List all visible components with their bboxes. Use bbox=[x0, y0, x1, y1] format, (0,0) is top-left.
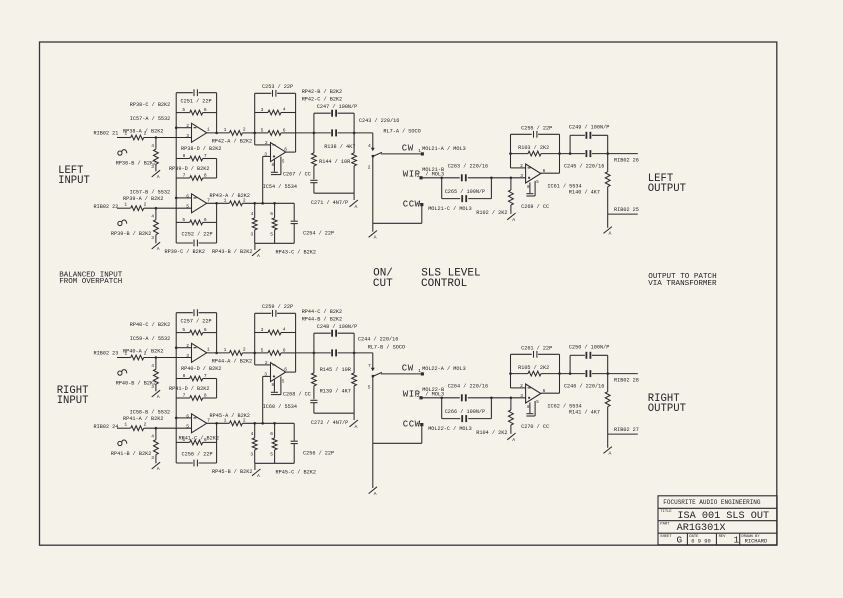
capacitor C254 (to gnd) bbox=[291, 203, 335, 243]
svg-text:5: 5 bbox=[270, 451, 273, 457]
svg-text:FOCUSRITE AUDIO ENGINEERING: FOCUSRITE AUDIO ENGINEERING bbox=[663, 499, 761, 506]
wire bbox=[144, 427, 192, 429]
border frame bbox=[40, 42, 777, 545]
svg-text:C245 / 220/16: C245 / 220/16 bbox=[564, 164, 604, 170]
connector label RIB02 22 bbox=[94, 204, 119, 210]
capacitor C248 (parallel 100N) bbox=[314, 324, 357, 353]
ground A (output) bbox=[604, 447, 612, 457]
ground A (bottom rail) bbox=[252, 463, 260, 479]
resistor RP38-A (series input, upper) bbox=[123, 128, 163, 140]
resistor RP38-D (coupling) bbox=[176, 146, 221, 161]
wire bbox=[155, 455, 157, 464]
svg-text:C267 / CC: C267 / CC bbox=[283, 171, 311, 177]
svg-text:C258 / 22P: C258 / 22P bbox=[182, 451, 213, 457]
label RP43-C bbox=[276, 250, 316, 256]
label LEFT INPUT bbox=[58, 165, 90, 187]
svg-text:5: 5 bbox=[270, 231, 273, 237]
svg-text:2: 2 bbox=[144, 201, 147, 207]
wire pin2 bbox=[255, 144, 271, 146]
svg-text:RP38-D / B2K2: RP38-D / B2K2 bbox=[181, 146, 221, 152]
wire bbox=[155, 235, 157, 244]
resistor RP44-C (2nd stage feedback 5-6) bbox=[255, 347, 296, 355]
svg-text:VIA TRANSFORMER: VIA TRANSFORMER bbox=[648, 280, 717, 288]
svg-text:1: 1 bbox=[124, 421, 127, 427]
resistor RP42-C (2nd stage feedback 5-6) bbox=[255, 127, 296, 135]
wire bbox=[155, 164, 157, 171]
svg-text:C252 / 22P: C252 / 22P bbox=[182, 231, 213, 237]
svg-text:R138 / 4K7: R138 / 4K7 bbox=[324, 144, 355, 150]
svg-text:SHEET: SHEET bbox=[660, 535, 672, 539]
svg-text:C247 / 100N/P: C247 / 100N/P bbox=[317, 104, 357, 110]
svg-text:RICHARD: RICHARD bbox=[745, 539, 768, 545]
svg-text:RP40-B / B2K2: RP40-B / B2K2 bbox=[116, 381, 156, 387]
relay contact RL7-B bbox=[368, 344, 405, 390]
svg-text:7: 7 bbox=[204, 373, 207, 379]
svg-text:3: 3 bbox=[151, 455, 154, 461]
svg-text:3: 3 bbox=[186, 133, 189, 139]
svg-text:RP43-B / B2K2: RP43-B / B2K2 bbox=[212, 249, 252, 255]
capacitor C259 (2nd stage feedback) bbox=[255, 304, 296, 317]
relay contact RL7-A bbox=[368, 129, 421, 171]
wire pin3 down to lower bus bbox=[263, 376, 271, 423]
resistor RP44-B (2nd stage feedback 3-4) bbox=[255, 326, 296, 335]
capacitor C253 (2nd stage feedback) bbox=[255, 84, 296, 97]
svg-text:RP39-C / B2K2: RP39-C / B2K2 bbox=[165, 249, 205, 255]
wire CCW leg bbox=[373, 205, 422, 224]
svg-text:IC58-B / 5532: IC58-B / 5532 bbox=[130, 409, 170, 415]
wire input RIB02 22 bbox=[117, 207, 131, 209]
svg-text:MOL21-A / MOL3: MOL21-A / MOL3 bbox=[422, 146, 466, 152]
svg-text:IC62 / 5534: IC62 / 5534 bbox=[547, 404, 581, 410]
svg-text:RIB02 28: RIB02 28 bbox=[614, 378, 639, 384]
wire 2nd stage left vertical bbox=[254, 93, 256, 145]
svg-text:C270 / CC: C270 / CC bbox=[521, 424, 549, 430]
svg-text:IC54 / 5534: IC54 / 5534 bbox=[263, 184, 297, 190]
wire down bbox=[607, 214, 609, 228]
svg-text:4: 4 bbox=[151, 143, 154, 149]
label RP42-C bbox=[302, 97, 342, 103]
wire bbox=[155, 384, 157, 391]
resistor R139 (network left) bbox=[312, 353, 351, 399]
resistor RP39-D (coupling) bbox=[169, 166, 217, 181]
svg-text:4: 4 bbox=[151, 214, 154, 220]
svg-text:CUT: CUT bbox=[373, 278, 393, 290]
node input junction bbox=[155, 138, 157, 150]
svg-text:4: 4 bbox=[251, 211, 254, 217]
label RP44-B bbox=[302, 317, 342, 323]
svg-text:6: 6 bbox=[270, 211, 273, 217]
label RP43-B bbox=[212, 249, 252, 255]
svg-text:RP40-D / B2K2: RP40-D / B2K2 bbox=[181, 366, 221, 372]
svg-text:6: 6 bbox=[204, 107, 207, 113]
wire op-amp output bbox=[207, 127, 230, 133]
svg-text:1: 1 bbox=[418, 369, 421, 374]
svg-text:A: A bbox=[157, 466, 160, 472]
svg-text:RIB02 27: RIB02 27 bbox=[614, 427, 639, 433]
svg-text:A: A bbox=[157, 394, 160, 400]
svg-text:REV: REV bbox=[719, 535, 727, 539]
AC source symbol (upper) bbox=[118, 150, 127, 156]
wire relay ground leg bbox=[372, 156, 374, 231]
op-amp IC59-A (upper input) bbox=[130, 336, 210, 362]
op-amp IC57-B (lower input) bbox=[130, 189, 211, 213]
svg-text:CONTROL: CONTROL bbox=[421, 278, 467, 290]
wire pin2 feedback bbox=[511, 354, 526, 388]
svg-text:A: A bbox=[374, 491, 377, 497]
svg-text:2: 2 bbox=[144, 351, 147, 357]
svg-text:C257 / 22P: C257 / 22P bbox=[181, 319, 212, 325]
resistor RP45-C (to gnd) bbox=[270, 423, 277, 463]
wire op-amp output bbox=[207, 347, 230, 353]
svg-text:6 9 90: 6 9 90 bbox=[691, 538, 710, 544]
wire down bbox=[607, 434, 609, 448]
svg-text:RP44-A / B2K2: RP44-A / B2K2 bbox=[212, 359, 252, 365]
svg-text:A: A bbox=[157, 174, 160, 180]
label RP45-B bbox=[212, 469, 252, 475]
svg-text:7: 7 bbox=[183, 393, 186, 399]
svg-text:RP41-C / B2K2: RP41-C / B2K2 bbox=[179, 436, 219, 442]
svg-text:RIB02 22: RIB02 22 bbox=[94, 204, 119, 210]
svg-text:6: 6 bbox=[204, 327, 207, 333]
wire pin3 down to lower bus bbox=[263, 156, 271, 203]
svg-text:1: 1 bbox=[418, 149, 421, 154]
svg-text:C272 / 4N7/P: C272 / 4N7/P bbox=[311, 420, 348, 426]
capacitor C252 (feedback, lower) bbox=[176, 231, 216, 246]
ground A (lower input) bbox=[152, 242, 160, 252]
connector label RIB02 23 bbox=[94, 351, 119, 357]
svg-text:INPUT: INPUT bbox=[57, 395, 89, 407]
svg-text:5: 5 bbox=[182, 217, 185, 223]
wire pin2 bbox=[255, 364, 271, 366]
wire input RIB02 21 bbox=[117, 137, 131, 139]
svg-text:ISA 001 SLS OUT: ISA 001 SLS OUT bbox=[677, 511, 769, 522]
wire bbox=[242, 352, 254, 354]
svg-text:C264 / 220/16: C264 / 220/16 bbox=[448, 383, 488, 389]
capacitor C266 (wiper parallel) bbox=[442, 398, 492, 422]
wire coupling right vertical bbox=[216, 159, 218, 179]
svg-text:RP39-B / B2K2: RP39-B / B2K2 bbox=[111, 231, 151, 237]
svg-text:RP45-B / B2K2: RP45-B / B2K2 bbox=[212, 469, 252, 475]
svg-text:R103 / 2K2: R103 / 2K2 bbox=[518, 145, 549, 151]
resistor RP39-A (series input, lower) bbox=[123, 196, 163, 211]
resistor RP41-C (feedback, lower) bbox=[176, 437, 216, 445]
svg-text:MOL21-C / MOL3: MOL21-C / MOL3 bbox=[428, 206, 472, 212]
svg-text:3: 3 bbox=[520, 393, 523, 399]
svg-text:R144 / 10R: R144 / 10R bbox=[319, 159, 350, 165]
resistor R141 (output load) bbox=[569, 374, 610, 435]
wire feedback box B right vertical bbox=[216, 423, 218, 463]
svg-text:C244 / 220/16: C244 / 220/16 bbox=[358, 336, 398, 342]
svg-text:2: 2 bbox=[144, 131, 147, 137]
svg-text:RP39-A / B2K2: RP39-A / B2K2 bbox=[123, 196, 163, 202]
svg-text:8: 8 bbox=[204, 393, 207, 399]
capacitor C251 (feedback, upper) bbox=[176, 89, 216, 104]
svg-text:RIB02 23: RIB02 23 bbox=[94, 351, 119, 357]
svg-text:RP41-A / B2K2: RP41-A / B2K2 bbox=[123, 416, 163, 422]
svg-text:6: 6 bbox=[186, 194, 189, 200]
svg-text:5: 5 bbox=[186, 424, 189, 430]
label BALANCED INPUT FROM OVERPATCH bbox=[59, 271, 123, 285]
svg-text:RP40-C / B2K2: RP40-C / B2K2 bbox=[130, 322, 170, 328]
capacitor C272 (network) bbox=[310, 400, 348, 426]
svg-text:RP39-D / B2K2: RP39-D / B2K2 bbox=[169, 166, 209, 172]
wire 2nd stage output bbox=[286, 313, 296, 372]
svg-text:IC61 / 5534: IC61 / 5534 bbox=[547, 184, 581, 190]
ground A (upper input) bbox=[152, 390, 160, 400]
capacitor C247 (parallel 100N) bbox=[314, 104, 357, 133]
svg-text:2: 2 bbox=[144, 421, 147, 427]
svg-text:6: 6 bbox=[284, 146, 287, 152]
wire 2nd stage left vertical bbox=[254, 313, 256, 365]
resistor R145 (network right) bbox=[320, 353, 357, 413]
resistor R138 (network left) bbox=[312, 133, 351, 179]
svg-text:IC60 / 5534: IC60 / 5534 bbox=[263, 404, 297, 410]
wire bbox=[242, 202, 294, 204]
label LEFT OUTPUT bbox=[648, 173, 686, 195]
junction dots bbox=[155, 346, 609, 429]
wire output return RIB02 25 bbox=[608, 207, 639, 214]
AC source symbol (lower) bbox=[118, 440, 127, 446]
svg-text:A: A bbox=[512, 437, 515, 443]
svg-text:2: 2 bbox=[186, 343, 189, 349]
capacitor C270 (comp cap, output) bbox=[521, 401, 549, 430]
svg-text:5: 5 bbox=[368, 385, 371, 391]
resistor RP42-B (2nd stage feedback 3-4) bbox=[255, 106, 296, 115]
node WIP MOL21-B bbox=[403, 167, 444, 180]
ground A (network) bbox=[350, 193, 358, 210]
resistor R103 (output feedback) bbox=[511, 145, 560, 156]
svg-text:RL7-A / SOCO: RL7-A / SOCO bbox=[383, 129, 420, 135]
svg-text:5: 5 bbox=[182, 327, 185, 333]
svg-text:INPUT: INPUT bbox=[58, 175, 90, 187]
svg-text:OUTPUT: OUTPUT bbox=[648, 403, 686, 415]
svg-text:2: 2 bbox=[243, 347, 246, 353]
resistor RP41-A (series input, lower) bbox=[123, 416, 163, 431]
svg-text:C248 / 100N/P: C248 / 100N/P bbox=[317, 324, 357, 330]
svg-text:A: A bbox=[609, 231, 612, 237]
svg-text:3: 3 bbox=[261, 327, 264, 333]
svg-text:MOL22-A / MOL3: MOL22-A / MOL3 bbox=[422, 366, 466, 372]
connector label RIB02 21 bbox=[94, 131, 119, 137]
op-amp IC54 (2nd stage) bbox=[263, 140, 297, 190]
resistor RP40-D (coupling) bbox=[176, 366, 221, 381]
svg-text:A: A bbox=[157, 246, 160, 252]
capacitor C244 (series electrolytic) bbox=[296, 336, 399, 356]
label RP41-C bbox=[179, 436, 219, 442]
label RP42-B bbox=[302, 89, 342, 95]
svg-text:2: 2 bbox=[417, 174, 420, 179]
wire op-amp B output bbox=[207, 417, 230, 423]
svg-text:2: 2 bbox=[243, 127, 246, 133]
svg-text:3: 3 bbox=[417, 200, 420, 206]
capacitor C249 (output parallel 100N) bbox=[569, 124, 609, 153]
svg-text:2: 2 bbox=[368, 165, 371, 171]
svg-text:1: 1 bbox=[734, 535, 740, 546]
junction dots bbox=[155, 126, 609, 209]
svg-text:RP44-C / B2K2: RP44-C / B2K2 bbox=[302, 309, 342, 315]
node input junction bbox=[155, 358, 157, 370]
capacitor C269 (comp cap, output) bbox=[521, 181, 549, 210]
svg-text:CW: CW bbox=[402, 144, 414, 154]
svg-text:R104 / 2K2: R104 / 2K2 bbox=[476, 430, 507, 436]
svg-text:6: 6 bbox=[283, 347, 286, 353]
capacitor C261 (output feedback) bbox=[511, 346, 560, 358]
svg-text:C249 / 100N/P: C249 / 100N/P bbox=[569, 124, 609, 130]
svg-text:C265 / 100N/P: C265 / 100N/P bbox=[445, 189, 485, 195]
capacitor C263 (wiper series) bbox=[422, 163, 526, 181]
op-amp IC58-B (lower input) bbox=[130, 409, 211, 433]
title block bbox=[658, 496, 777, 546]
svg-text:3: 3 bbox=[520, 173, 523, 179]
svg-text:RP44-B / B2K2: RP44-B / B2K2 bbox=[302, 317, 342, 323]
label RIGHT INPUT bbox=[57, 385, 89, 407]
svg-text:4: 4 bbox=[283, 326, 286, 332]
wire CCW leg bbox=[373, 425, 422, 444]
feedback box upper: vertical left bbox=[175, 93, 177, 243]
resistor R140 (output load) bbox=[569, 154, 610, 215]
resistor RP39-C (feedback, lower) bbox=[176, 217, 216, 225]
resistor RP39-B (shunt, lower) bbox=[111, 214, 158, 241]
resistor R104 (wiper shunt) bbox=[476, 398, 513, 436]
svg-text:RP42-C / B2K2: RP42-C / B2K2 bbox=[302, 97, 342, 103]
svg-text:C271 / 4N7/P: C271 / 4N7/P bbox=[311, 200, 348, 206]
connector label RIB02 28 bbox=[614, 378, 639, 384]
svg-text:R139 / 4K7: R139 / 4K7 bbox=[320, 389, 351, 395]
svg-text:1: 1 bbox=[207, 127, 210, 133]
svg-text:1: 1 bbox=[124, 201, 127, 207]
svg-text:R145 / 10R: R145 / 10R bbox=[320, 367, 351, 373]
svg-text:C255 / 22P: C255 / 22P bbox=[521, 126, 552, 132]
svg-text:C253 / 22P: C253 / 22P bbox=[262, 84, 293, 90]
svg-text:TITLE: TITLE bbox=[660, 510, 672, 514]
svg-text:5: 5 bbox=[186, 204, 189, 210]
wire pin6 feedback bbox=[176, 417, 191, 419]
capacitor C256 (to gnd) bbox=[291, 423, 335, 463]
label RP39-C bbox=[165, 249, 205, 255]
wire input RIB02 23 bbox=[117, 357, 131, 359]
op-amp IC60 (2nd stage) bbox=[263, 360, 297, 410]
label RP45-C bbox=[276, 470, 316, 476]
resistor R102 (wiper shunt) bbox=[476, 178, 513, 216]
svg-text:A: A bbox=[512, 217, 515, 223]
wire relay ground leg bbox=[372, 376, 374, 488]
capacitor C250 (output parallel 100N) bbox=[569, 344, 609, 373]
svg-text:3: 3 bbox=[186, 353, 189, 359]
svg-text:C263 / 220/16: C263 / 220/16 bbox=[448, 163, 488, 169]
svg-text:RIB02 25: RIB02 25 bbox=[614, 207, 639, 213]
resistor RP40-A (series input, upper) bbox=[123, 348, 163, 360]
svg-text:RP45-C / B2K2: RP45-C / B2K2 bbox=[276, 470, 316, 476]
svg-text:RP41-B / B2K2: RP41-B / B2K2 bbox=[111, 451, 151, 457]
connector label RIB02 24 bbox=[94, 424, 119, 430]
svg-text:6: 6 bbox=[283, 127, 286, 133]
node CW MOL22-A bbox=[402, 364, 466, 376]
svg-text:A: A bbox=[257, 253, 260, 259]
resistor RP43-C (to gnd) bbox=[270, 203, 277, 243]
svg-text:C256 / 22P: C256 / 22P bbox=[303, 451, 334, 457]
ground A (wiper shunt) bbox=[507, 433, 515, 443]
label RIGHT OUTPUT bbox=[648, 393, 686, 415]
resistor RP42-A (interstage, upper) bbox=[212, 127, 252, 145]
resistor RP38-B (shunt, upper) bbox=[116, 143, 159, 170]
svg-text:C269 / CC: C269 / CC bbox=[521, 204, 549, 210]
svg-text:C259 / 22P: C259 / 22P bbox=[262, 304, 293, 310]
svg-text:2: 2 bbox=[243, 417, 246, 423]
label ON/CUT bbox=[373, 267, 393, 290]
ground A (output) bbox=[604, 227, 612, 237]
svg-text:1: 1 bbox=[224, 127, 227, 133]
wire bbox=[144, 137, 192, 139]
wire bottom rail bbox=[255, 462, 295, 464]
capacitor C265 (wiper parallel) bbox=[442, 178, 492, 202]
svg-text:4: 4 bbox=[283, 106, 286, 112]
svg-text:4: 4 bbox=[251, 431, 254, 437]
wire network bottom bbox=[314, 412, 354, 414]
svg-text:G: G bbox=[677, 535, 683, 546]
connector label RIB02 26 bbox=[614, 158, 639, 164]
resistor RP43-A (interstage, lower) bbox=[210, 193, 250, 206]
svg-text:AR1G301X: AR1G301X bbox=[677, 523, 726, 534]
resistor RP38-C (feedback, upper) bbox=[130, 102, 217, 115]
svg-text:RP42-B / B2K2: RP42-B / B2K2 bbox=[302, 89, 342, 95]
svg-text:5: 5 bbox=[261, 347, 264, 353]
label RP44-C bbox=[302, 309, 342, 315]
svg-text:8: 8 bbox=[183, 153, 186, 159]
svg-text:3: 3 bbox=[261, 107, 264, 113]
svg-text:A: A bbox=[257, 473, 260, 479]
resistor RP41-B (shunt, lower) bbox=[111, 434, 158, 461]
svg-text:6: 6 bbox=[204, 217, 207, 223]
wire feedback box right vertical bbox=[216, 93, 218, 133]
ground A (upper input) bbox=[152, 170, 160, 180]
capacitor C257 (feedback, upper) bbox=[176, 309, 216, 324]
svg-text:1: 1 bbox=[224, 347, 227, 353]
node input junction lower bbox=[155, 208, 157, 220]
svg-text:A: A bbox=[355, 424, 358, 430]
svg-text:RL7-B / SOCO: RL7-B / SOCO bbox=[368, 344, 405, 350]
op-amp IC57-A (upper input) bbox=[130, 116, 210, 142]
node WIP MOL22-B bbox=[403, 387, 444, 400]
svg-text:A: A bbox=[355, 204, 358, 210]
resistor RP41-D (coupling) bbox=[169, 386, 217, 401]
label SLS LEVEL CONTROL bbox=[421, 267, 481, 290]
capacitor C255 (output feedback) bbox=[511, 126, 560, 138]
ground A (lower input) bbox=[152, 462, 160, 472]
svg-text:C246 / 220/16: C246 / 220/16 bbox=[564, 384, 604, 390]
svg-text:1: 1 bbox=[207, 347, 210, 353]
svg-text:IC59-A / 5532: IC59-A / 5532 bbox=[130, 336, 170, 342]
wire output up bbox=[541, 354, 560, 393]
svg-text:R105 / 2K2: R105 / 2K2 bbox=[518, 365, 549, 371]
svg-text:R102 / 2K2: R102 / 2K2 bbox=[476, 210, 507, 216]
resistor R144 (network right) bbox=[324, 133, 356, 193]
svg-text:3: 3 bbox=[151, 384, 154, 390]
ground A (wiper shunt) bbox=[507, 213, 515, 223]
wire network bottom bbox=[314, 192, 354, 194]
svg-text:8: 8 bbox=[204, 173, 207, 179]
capacitor C246 (output series electrolytic) bbox=[560, 370, 638, 390]
svg-text:RIB02 21: RIB02 21 bbox=[94, 131, 119, 137]
svg-text:R140 / 4K7: R140 / 4K7 bbox=[569, 190, 600, 196]
svg-text:3: 3 bbox=[151, 164, 154, 170]
ground A (relay) bbox=[369, 231, 377, 241]
svg-text:IC57-B / 5532: IC57-B / 5532 bbox=[130, 189, 170, 195]
resistor RP45-B (to gnd) bbox=[250, 423, 257, 463]
ground A (network) bbox=[350, 413, 358, 430]
node CCW MOL21-C bbox=[403, 199, 472, 212]
svg-text:1: 1 bbox=[124, 351, 127, 357]
ground A (bottom rail) bbox=[252, 243, 260, 259]
